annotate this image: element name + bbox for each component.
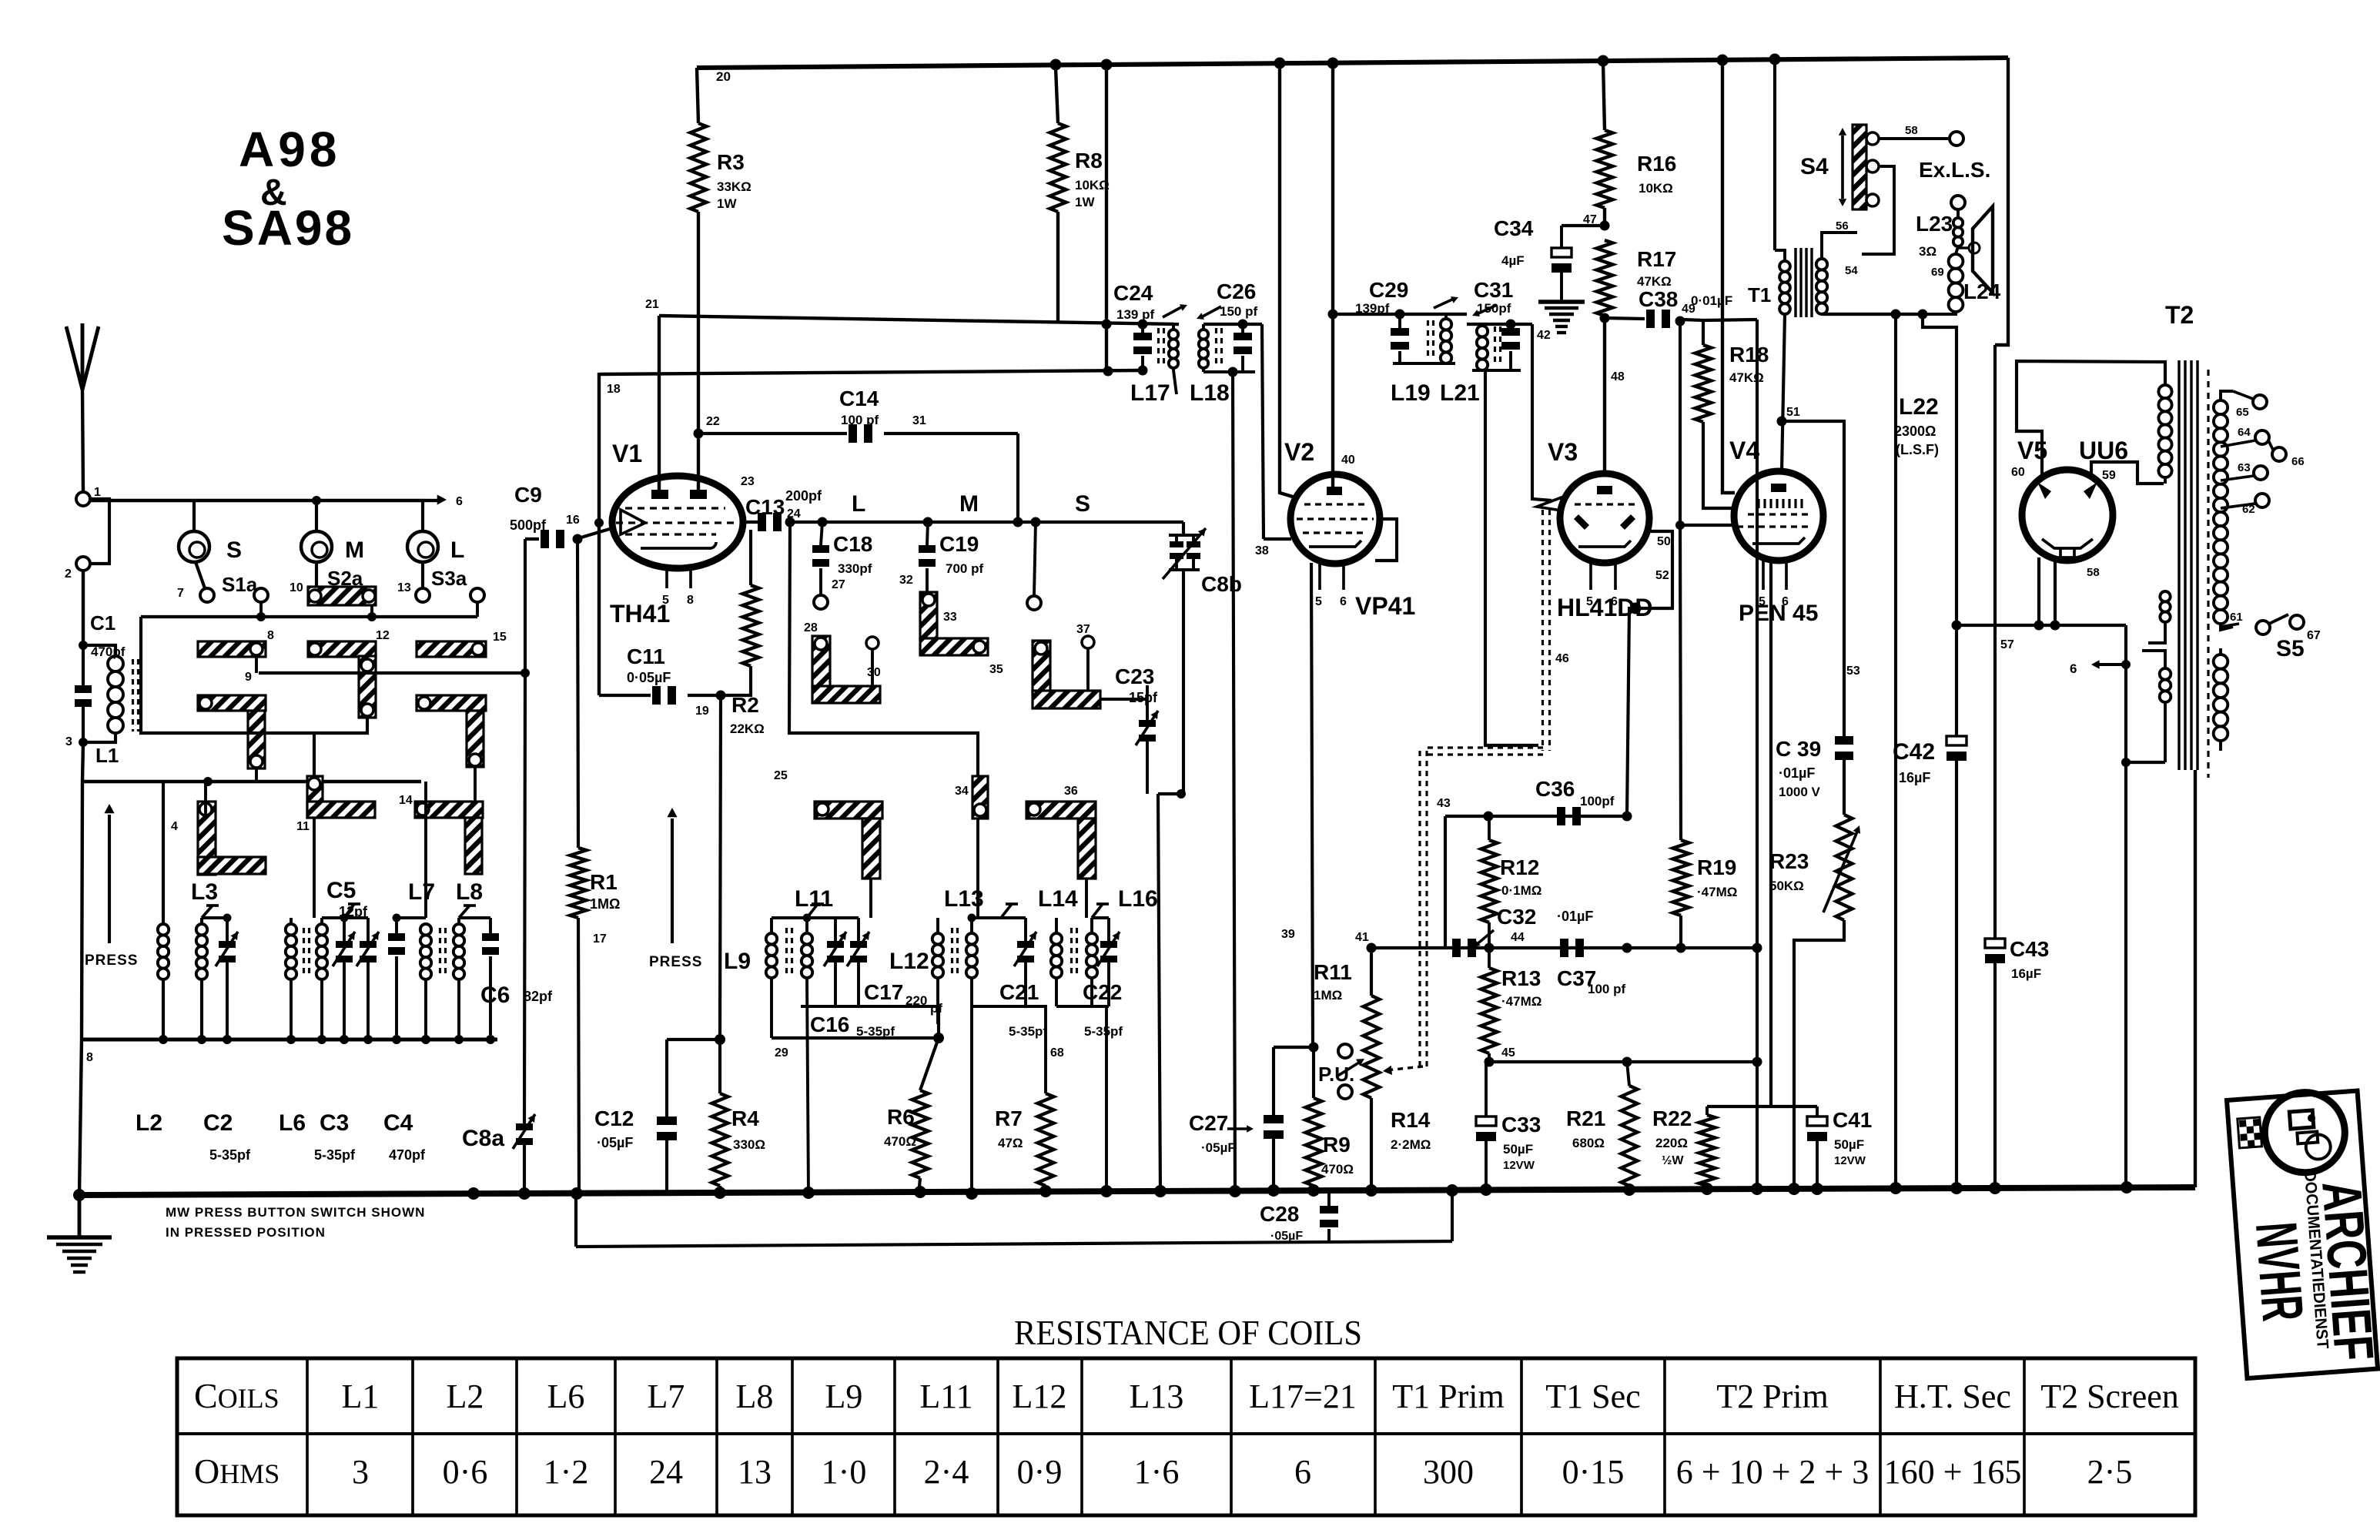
svg-text:NVHR: NVHR [2243,1220,2315,1324]
wire 45 rail [1485,1046,1762,1067]
svg-text:33: 33 [943,611,957,624]
node pins 5 8 V1 [662,594,694,607]
node 23 24 labels [741,475,801,521]
svg-text:L2: L2 [447,1378,484,1415]
svg-text:T2 Screen: T2 Screen [2040,1378,2179,1415]
node 48 wire [1600,313,1625,475]
svg-text:C32: C32 [1497,905,1536,929]
svg-text:R11: R11 [1314,960,1352,984]
svg-text:52: 52 [1655,569,1669,582]
svg-text:16: 16 [566,514,580,527]
resistor R6 [884,1038,939,1195]
node V1 label [612,440,642,467]
svg-text:39: 39 [1281,928,1295,941]
svg-text:R19: R19 [1697,855,1736,879]
capacitor C28 [576,1192,1452,1247]
switch contact S2a [290,567,376,605]
wire AVC dashed bus [1383,510,1569,1075]
svg-text:30: 30 [867,666,881,679]
node 63 [2221,461,2268,480]
wire V2 cathode [1281,563,1313,1047]
svg-text:5: 5 [1759,595,1766,608]
wire grid main line [741,517,1183,527]
svg-text:5-35pf: 5-35pf [314,1147,356,1163]
svg-text:6: 6 [1611,595,1618,608]
svg-text:31: 31 [912,414,926,427]
svg-text:62: 62 [2242,503,2255,516]
svg-text:16µF: 16µF [2011,966,2041,981]
resistor R3 [691,68,751,493]
node 62 [2221,494,2269,516]
node table title [1014,1313,1362,1352]
svg-text:5-35pf: 5-35pf [1084,1024,1123,1039]
svg-text:700 pf: 700 pf [946,561,983,576]
svg-text:R2: R2 [731,693,759,717]
wire left bottom rail [82,1035,497,1064]
node 19 [695,691,726,718]
svg-text:470Ω: 470Ω [1321,1162,1354,1177]
trimmer C8b [1163,522,1242,794]
resistor R21 [1566,1062,1638,1195]
wire HT bus [697,54,2008,71]
node V4 label [1729,437,1759,464]
svg-text:44: 44 [1511,931,1525,944]
svg-text:58: 58 [1905,124,1918,137]
svg-text:L6: L6 [547,1378,585,1415]
svg-text:IN PRESSED POSITION: IN PRESSED POSITION [166,1225,326,1240]
node V2 label [1284,438,1314,466]
svg-text:37: 37 [1076,623,1090,636]
svg-text:3: 3 [352,1453,369,1491]
svg-text:1·2: 1·2 [544,1453,589,1491]
svg-text:PRESS: PRESS [649,954,702,970]
wire V3 grid funnel [1537,497,1562,511]
resistor R18 [1695,320,1769,508]
svg-text:C19: C19 [939,532,979,556]
svg-text:R3: R3 [717,150,745,174]
svg-text:S: S [1075,491,1090,517]
inductor L21 [1440,305,1532,406]
svg-text:21: 21 [645,298,659,311]
wire 29 rail [667,1006,944,1060]
node title A98 & SA98 [222,122,354,256]
wire C1 branch [82,645,85,742]
svg-text:C24: C24 [1113,281,1153,305]
capacitor C37 [1557,939,1625,996]
svg-text:T2: T2 [2165,301,2194,329]
svg-text:·05µF: ·05µF [1201,1140,1236,1155]
wire mid links [774,769,1086,918]
ground C34 [1538,302,1585,333]
svg-text:R8: R8 [1075,149,1103,172]
transformer T2 HT sec [2214,391,2233,630]
svg-text:L12: L12 [889,949,929,974]
svg-text:V2: V2 [1284,438,1314,466]
svg-text:R16: R16 [1637,152,1676,176]
svg-text:1W: 1W [1075,195,1095,209]
wire T1 sec bottom rail [1822,310,1928,320]
wire aerial down [79,571,88,650]
inductor L23 [1916,196,1980,279]
wire M column [920,592,1003,676]
svg-text:T1 Sec: T1 Sec [1545,1378,1640,1415]
inductor L2 [136,782,169,1136]
transformer T2 screen sec [2214,648,2228,751]
svg-text:6 + 10 + 2 + 3: 6 + 10 + 2 + 3 [1676,1453,1869,1491]
svg-text:L1: L1 [95,744,119,767]
wire V2 anode col [1328,62,1338,487]
svg-text:L: L [450,537,464,563]
svg-text:L8: L8 [456,879,483,905]
switch contact S3a [397,567,484,602]
svg-text:P.U.: P.U. [1318,1063,1354,1086]
resistor R13 [1481,948,1542,1062]
svg-text:2·5: 2·5 [2087,1453,2133,1491]
inductor L7 [408,782,435,1039]
wire S stub [194,500,205,588]
node VP41 label [1355,592,1415,620]
wire mid column 1025 [789,522,978,776]
svg-text:330pf: 330pf [838,561,872,576]
svg-text:150pf: 150pf [1477,301,1511,316]
svg-text:L22: L22 [1899,394,1939,420]
svg-text:H.T. Sec: H.T. Sec [1894,1378,2011,1415]
svg-text:7: 7 [177,587,184,600]
wire L21 bottom [1485,370,1538,745]
svg-text:T2 Prim: T2 Prim [1716,1378,1828,1415]
svg-text:22: 22 [706,415,720,428]
svg-text:L9: L9 [724,949,751,974]
node ExLS label [1919,158,1990,182]
trimmer C8a [462,673,535,1195]
stamp NVHR archief [2227,1088,2380,1378]
wire left column down [79,782,82,1195]
svg-text:L19: L19 [1391,380,1431,406]
svg-text:C18: C18 [833,532,872,556]
switch bar mid lower B [972,776,988,819]
svg-text:57: 57 [2000,638,2014,651]
wire 1437 column [1103,68,1113,377]
resistor R8 [1050,68,1110,322]
svg-text:S4: S4 [1800,154,1829,179]
svg-text:L12: L12 [1013,1378,1067,1415]
svg-text:·01µF: ·01µF [1779,765,1815,781]
switch bar 8 [198,629,274,657]
svg-text:R12: R12 [1500,855,1539,879]
svg-text:C 39: C 39 [1776,737,1821,761]
wire screen column [1722,60,1735,493]
svg-text:R4: R4 [731,1106,759,1130]
svg-text:66: 66 [2291,455,2305,468]
svg-text:·05µF: ·05µF [597,1135,633,1150]
svg-text:L18: L18 [1190,380,1230,406]
wire T1 sec top [1822,233,1857,259]
switch contact S1a [177,573,258,602]
svg-text:PRESS: PRESS [85,952,138,969]
svg-text:·01µF: ·01µF [1557,909,1593,924]
svg-text:C6: C6 [480,983,510,1008]
inductor L1 [83,645,139,767]
svg-text:200pf: 200pf [785,488,822,504]
svg-text:MW PRESS BUTTON SWITCH SHO: MW PRESS BUTTON SWITCH SHOWN [166,1205,425,1220]
trimmer C5 [326,878,379,1039]
svg-text:C36: C36 [1535,777,1575,801]
svg-text:50: 50 [1657,535,1671,548]
svg-text:8: 8 [86,1051,93,1064]
svg-text:47KΩ: 47KΩ [1729,370,1764,385]
resistor R19 [1673,525,1738,948]
capacitor C23 [1100,665,1158,794]
inductor L8 [440,879,484,1039]
svg-text:27: 27 [832,578,845,591]
svg-text:V4: V4 [1729,437,1759,464]
svg-text:6: 6 [1340,595,1347,608]
svg-text:220Ω: 220Ω [1655,1136,1688,1150]
svg-text:680Ω: 680Ω [1572,1136,1605,1150]
svg-text:220: 220 [905,993,927,1008]
svg-text:13: 13 [738,1453,772,1491]
wire C5 link [322,904,368,922]
wire V5 cathodes [2000,557,2100,651]
svg-text:C5: C5 [326,878,356,903]
wire bus right column [2194,770,2197,1187]
svg-text:10KΩ: 10KΩ [1639,181,1673,196]
wire V2 right bracket [1375,519,1397,561]
svg-text:17: 17 [593,932,607,946]
svg-text:15pf: 15pf [1129,690,1158,705]
wire 1732 column [1333,68,1334,314]
svg-text:C26: C26 [1217,280,1256,303]
capacitor C42 [1893,625,1967,1190]
svg-text:C21: C21 [999,980,1039,1004]
resistor R7 [995,1093,1054,1195]
capacitor C39 [1776,736,1853,815]
resistor R17 [1597,240,1677,316]
svg-text:45: 45 [1501,1046,1515,1060]
svg-text:C22: C22 [1083,980,1122,1004]
svg-text:0·15: 0·15 [1562,1453,1625,1491]
switch L button [407,531,464,563]
capacitor C43 [1985,345,2049,1190]
node pins V4 [1759,595,1789,608]
capacitor C27 [1189,1047,1284,1195]
node V3 label [1548,438,1578,466]
wire grid line B [599,370,1143,374]
svg-text:1W: 1W [717,196,737,211]
svg-text:V3: V3 [1548,438,1578,466]
svg-text:2·4: 2·4 [924,1453,969,1491]
svg-text:A98: A98 [239,122,340,177]
svg-text:Ex.L.S.: Ex.L.S. [1919,158,1990,182]
wire V4 cathode [1771,561,1860,1106]
svg-text:·47MΩ: ·47MΩ [1697,885,1737,899]
tube V2 VP41 [1290,474,1380,590]
svg-text:6: 6 [1294,1453,1311,1491]
svg-text:20: 20 [716,69,731,84]
svg-text:63: 63 [2238,461,2251,474]
svg-text:3: 3 [65,735,72,748]
node T2 label [2165,301,2194,329]
switch bar 12 [308,629,390,718]
capacitor C31 [1474,278,1520,370]
svg-text:C43: C43 [2010,937,2049,961]
svg-text:330Ω: 330Ω [733,1137,765,1152]
svg-text:L11: L11 [795,886,833,912]
svg-text:M: M [345,537,364,563]
node UU6 label [2079,437,2128,464]
table resistance of coils [177,1358,2195,1515]
svg-text:10KΩ: 10KΩ [1075,178,1110,192]
svg-text:M: M [959,491,979,517]
svg-text:11: 11 [296,820,310,833]
switch bar L section [804,621,881,703]
svg-text:41: 41 [1355,931,1369,944]
svg-text:C17: C17 [864,980,903,1004]
resistor R1 [571,539,621,1195]
node 66 [2268,440,2305,468]
svg-text:C2: C2 [203,1110,233,1136]
svg-text:2: 2 [65,567,72,581]
svg-text:470Ω: 470Ω [884,1134,916,1149]
inductor L6 [279,918,327,1136]
wire button rail 6 [90,496,426,505]
svg-text:C12: C12 [594,1106,634,1130]
svg-text:S2a: S2a [327,567,363,590]
resistor R16 [1597,62,1677,226]
wire L18 bottom to bus [1233,372,1235,1195]
transformer T2 primary [2142,385,2172,762]
svg-text:L13: L13 [944,886,984,912]
wire node 9 [245,656,530,684]
switch S5 [2256,614,2321,661]
tube V4 PEN45 [1734,471,1823,590]
trimmer C2 [203,918,251,1163]
wire L3 top link [202,914,232,922]
wire antenna link [90,499,109,564]
wire contact rail [141,588,477,621]
wire 44 rail [1367,931,1762,953]
svg-text:L2: L2 [136,1110,162,1136]
svg-text:38: 38 [1255,544,1269,557]
svg-text:L7: L7 [648,1378,685,1415]
svg-text:46: 46 [1555,652,1569,665]
svg-text:3Ω: 3Ω [1919,244,1936,259]
svg-text:C9: C9 [514,483,542,507]
svg-text:9: 9 [245,671,252,684]
svg-text:139pf: 139pf [1355,301,1390,316]
svg-text:50µF: 50µF [1503,1142,1533,1157]
svg-text:50µF: 50µF [1834,1137,1864,1152]
svg-text:C41: C41 [1833,1108,1872,1132]
capacitor C14 [698,387,1018,522]
ground main [47,1195,112,1272]
svg-text:C11: C11 [627,644,665,668]
wire V3 diode bracket [1627,531,1672,816]
switch bar S section [1033,623,1100,708]
svg-text:L1: L1 [342,1378,380,1415]
trimmer C21 [968,904,1048,1039]
svg-text:29: 29 [775,1046,788,1060]
svg-text:C4: C4 [383,1110,413,1136]
svg-text:5-35pf: 5-35pf [209,1147,251,1163]
svg-text:35: 35 [989,663,1003,676]
svg-text:67: 67 [2307,629,2321,642]
svg-text:12VW: 12VW [1834,1154,1866,1167]
resistor R23 [1769,815,1860,1190]
svg-text:1·0: 1·0 [822,1453,867,1491]
switch bar 11 [296,776,375,833]
svg-text:16µF: 16µF [1899,770,1930,785]
svg-text:42: 42 [1537,329,1551,342]
svg-text:0·01µF: 0·01µF [1691,293,1732,308]
wire main earth bus [73,1181,2195,1201]
node 40 label [1341,454,1355,467]
wire S column [1027,522,1041,610]
svg-text:V1: V1 [612,440,642,467]
svg-text:0·05µF: 0·05µF [627,670,671,685]
node V5 label [2017,437,2047,464]
node 6 arrow [426,494,463,508]
svg-text:51: 51 [1786,406,1800,419]
svg-text:RESISTANCE OF COILS: RESISTANCE OF COILS [1014,1313,1362,1352]
svg-text:160 + 165: 160 + 165 [1884,1453,2022,1491]
antenna [66,323,99,492]
wire C29 rail [1334,310,1467,320]
svg-text:32: 32 [899,574,913,587]
svg-text:R1: R1 [590,870,618,894]
switch M button [301,531,364,563]
inductor L3 [191,879,219,1039]
svg-text:R9: R9 [1323,1133,1351,1157]
wire node 21 [645,298,659,493]
svg-text:C31: C31 [1474,278,1513,302]
svg-text:(L.S.F): (L.S.F) [1896,442,1939,457]
resistor R4 [712,1039,766,1195]
wire left column [82,742,83,782]
wire V1 box [594,373,604,695]
switch bar left A [198,695,266,768]
svg-text:L17: L17 [1130,380,1170,406]
svg-text:S5: S5 [2276,636,2305,661]
svg-text:50KΩ: 50KΩ [1769,879,1804,893]
capacitor C11 [599,644,721,705]
svg-text:C33: C33 [1501,1113,1541,1137]
svg-text:25: 25 [774,769,788,782]
svg-text:½W: ½W [1662,1154,1684,1167]
potentiometer R14 [1337,931,1431,1195]
svg-text:4µF: 4µF [1501,253,1525,268]
svg-text:8: 8 [687,594,694,607]
wire R9 top rail [1274,1043,1319,1053]
resistor R9 [1306,1047,1354,1195]
wire V5 anode right [2091,462,2164,484]
svg-text:C8a: C8a [462,1126,504,1151]
capacitor C12 [594,1039,677,1195]
node 64 [2221,426,2269,447]
svg-text:C27: C27 [1189,1111,1228,1135]
svg-text:C14: C14 [839,387,879,410]
svg-text:S1a: S1a [222,573,258,596]
wire S4 to ExLS [1879,132,1963,146]
svg-text:L: L [852,491,865,517]
svg-text:L17=21: L17=21 [1249,1378,1357,1415]
wire T1 prim top [1773,59,1776,250]
capacitor C29 [1355,278,1409,363]
svg-text:48: 48 [1611,370,1625,383]
wire C9 feed [524,539,527,673]
inductor L19 [1391,296,1458,406]
svg-text:L8: L8 [736,1378,774,1415]
